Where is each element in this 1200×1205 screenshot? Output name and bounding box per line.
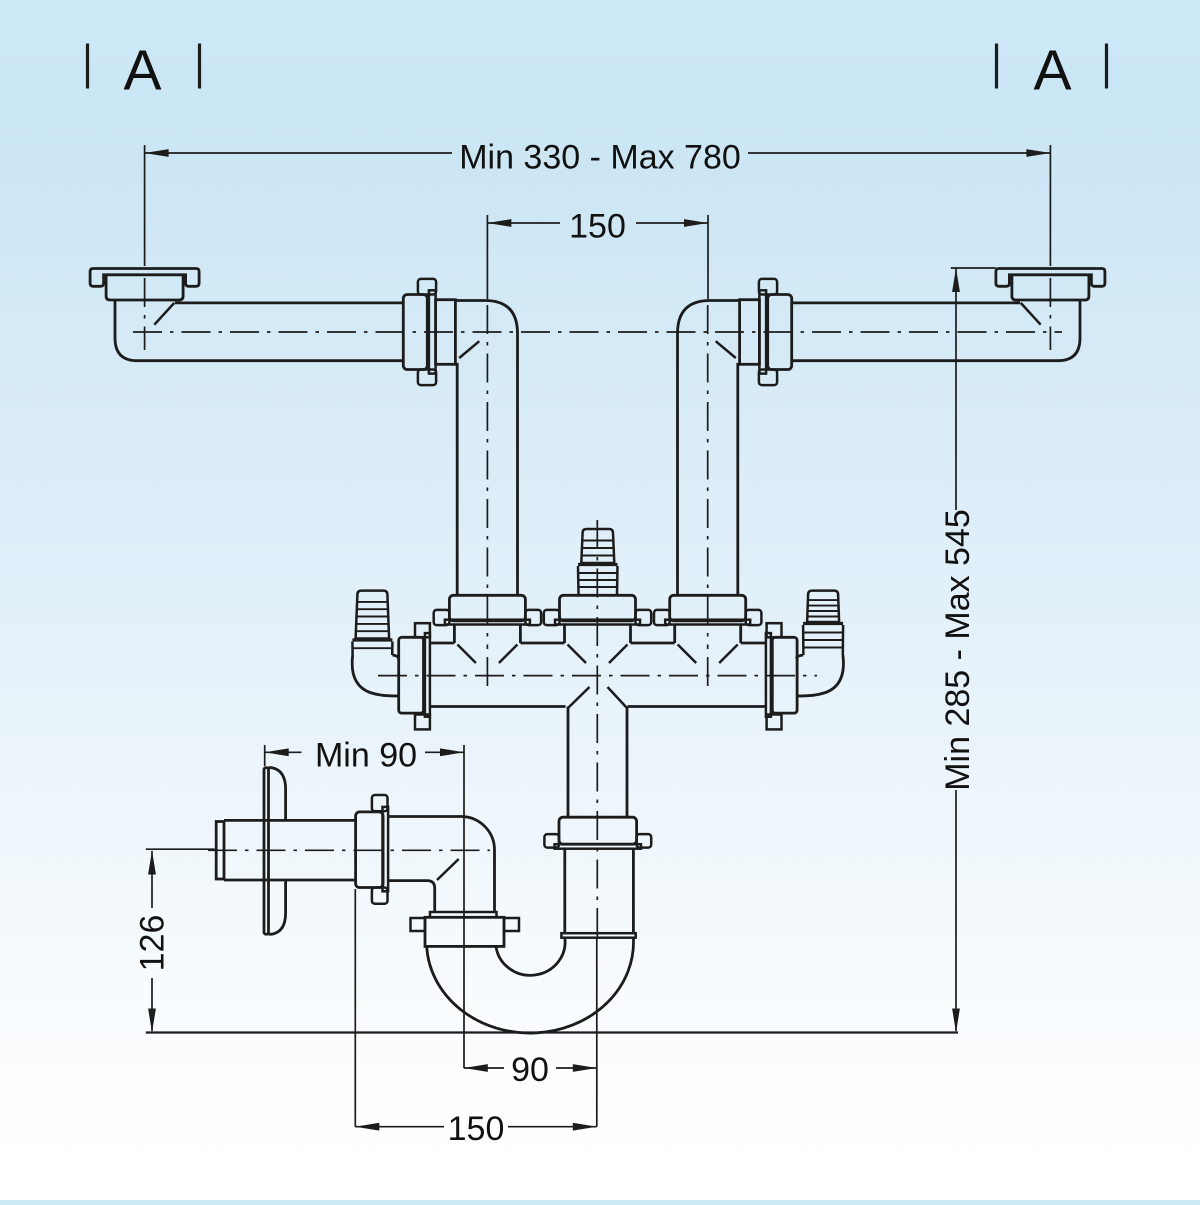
svg-text:Min 285 - Max 545: Min 285 - Max 545 xyxy=(939,509,977,791)
svg-text:126: 126 xyxy=(134,915,172,972)
svg-text:Min 90: Min 90 xyxy=(315,736,417,774)
svg-text:150: 150 xyxy=(569,208,626,246)
svg-text:150: 150 xyxy=(448,1110,505,1148)
svg-text:Min 330 - Max 780: Min 330 - Max 780 xyxy=(459,139,741,177)
svg-text:A: A xyxy=(1033,39,1071,103)
svg-text:A: A xyxy=(123,39,161,103)
svg-text:90: 90 xyxy=(511,1051,549,1089)
